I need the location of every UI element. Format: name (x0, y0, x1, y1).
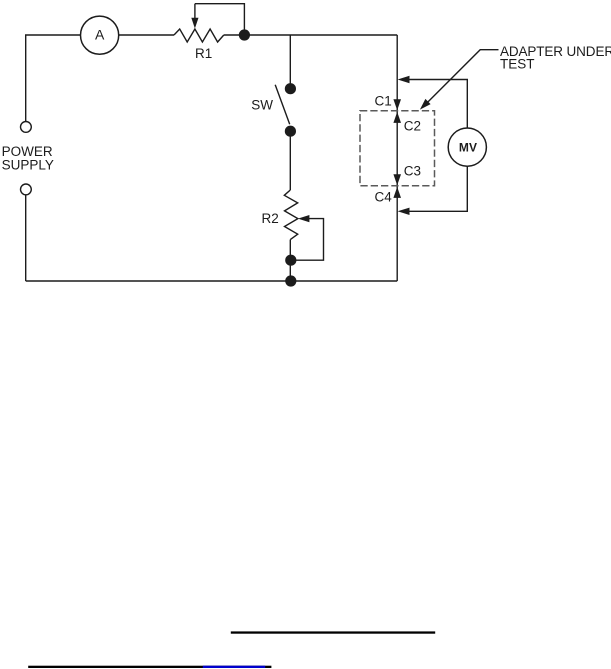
leader line ADAPTER UNDER TEST (427, 50, 499, 104)
arrow C1 (down, into box top) (393, 99, 401, 110)
R2 wiper loop wire (296, 219, 324, 261)
wire top left (26, 35, 81, 122)
power supply terminal upper (21, 122, 32, 133)
arrowhead MV loop bottom (398, 208, 410, 215)
svg-text:A: A (95, 26, 105, 42)
ammeter A (81, 16, 119, 54)
svg-text:TEST: TEST (500, 57, 535, 72)
R2 wiper arrow (298, 215, 310, 222)
arrowhead MV loop top (398, 76, 410, 83)
svg-text:R2: R2 (262, 211, 279, 226)
svg-text:MV: MV (459, 140, 477, 154)
svg-text:C3: C3 (404, 163, 421, 178)
wire top right (224, 34, 397, 36)
wire bottom (26, 280, 398, 282)
adapter dashed box (360, 111, 435, 186)
svg-text:SUPPLY: SUPPLY (2, 158, 54, 173)
switch SW (251, 83, 296, 137)
MV loop wire bottom (409, 166, 468, 211)
table rule upper (231, 631, 435, 633)
label POWER SUPPLY (2, 144, 54, 173)
svg-text:C2: C2 (404, 119, 421, 134)
footnote rule (black part) (28, 666, 271, 668)
resistor R1 (174, 29, 224, 61)
junction dot R2 bottom (285, 255, 296, 266)
arrow C4 (up, below box bottom) (393, 187, 401, 198)
svg-text:SW: SW (251, 98, 273, 113)
wire right vertical (396, 35, 398, 281)
wire top middle (119, 34, 174, 36)
R1 wiper arrow (191, 4, 198, 29)
wire left vertical lower (25, 195, 27, 281)
footnote hyperlink underline (blue part) (203, 666, 265, 668)
label ADAPTER UNDER TEST (500, 44, 611, 71)
junction dot bottom wire (285, 275, 296, 286)
MV loop wire top (409, 80, 468, 212)
leader arrowhead (420, 99, 431, 110)
millivoltmeter MV (448, 128, 486, 166)
wire switch to R2 (289, 136, 291, 190)
wire switch branch upper (289, 35, 291, 84)
junction dot R1 right (239, 29, 250, 40)
arrow C2 (up, inside box top) (393, 112, 401, 123)
power supply terminal lower (21, 184, 32, 195)
svg-text:C4: C4 (375, 190, 393, 205)
resistor R2 (262, 190, 298, 240)
svg-text:C1: C1 (375, 93, 392, 108)
wire R2 bottom (289, 240, 291, 281)
svg-text:R1: R1 (195, 46, 212, 61)
arrow C3 (down, inside box bottom) (393, 174, 401, 185)
R1 wiper loop wire (195, 4, 245, 35)
